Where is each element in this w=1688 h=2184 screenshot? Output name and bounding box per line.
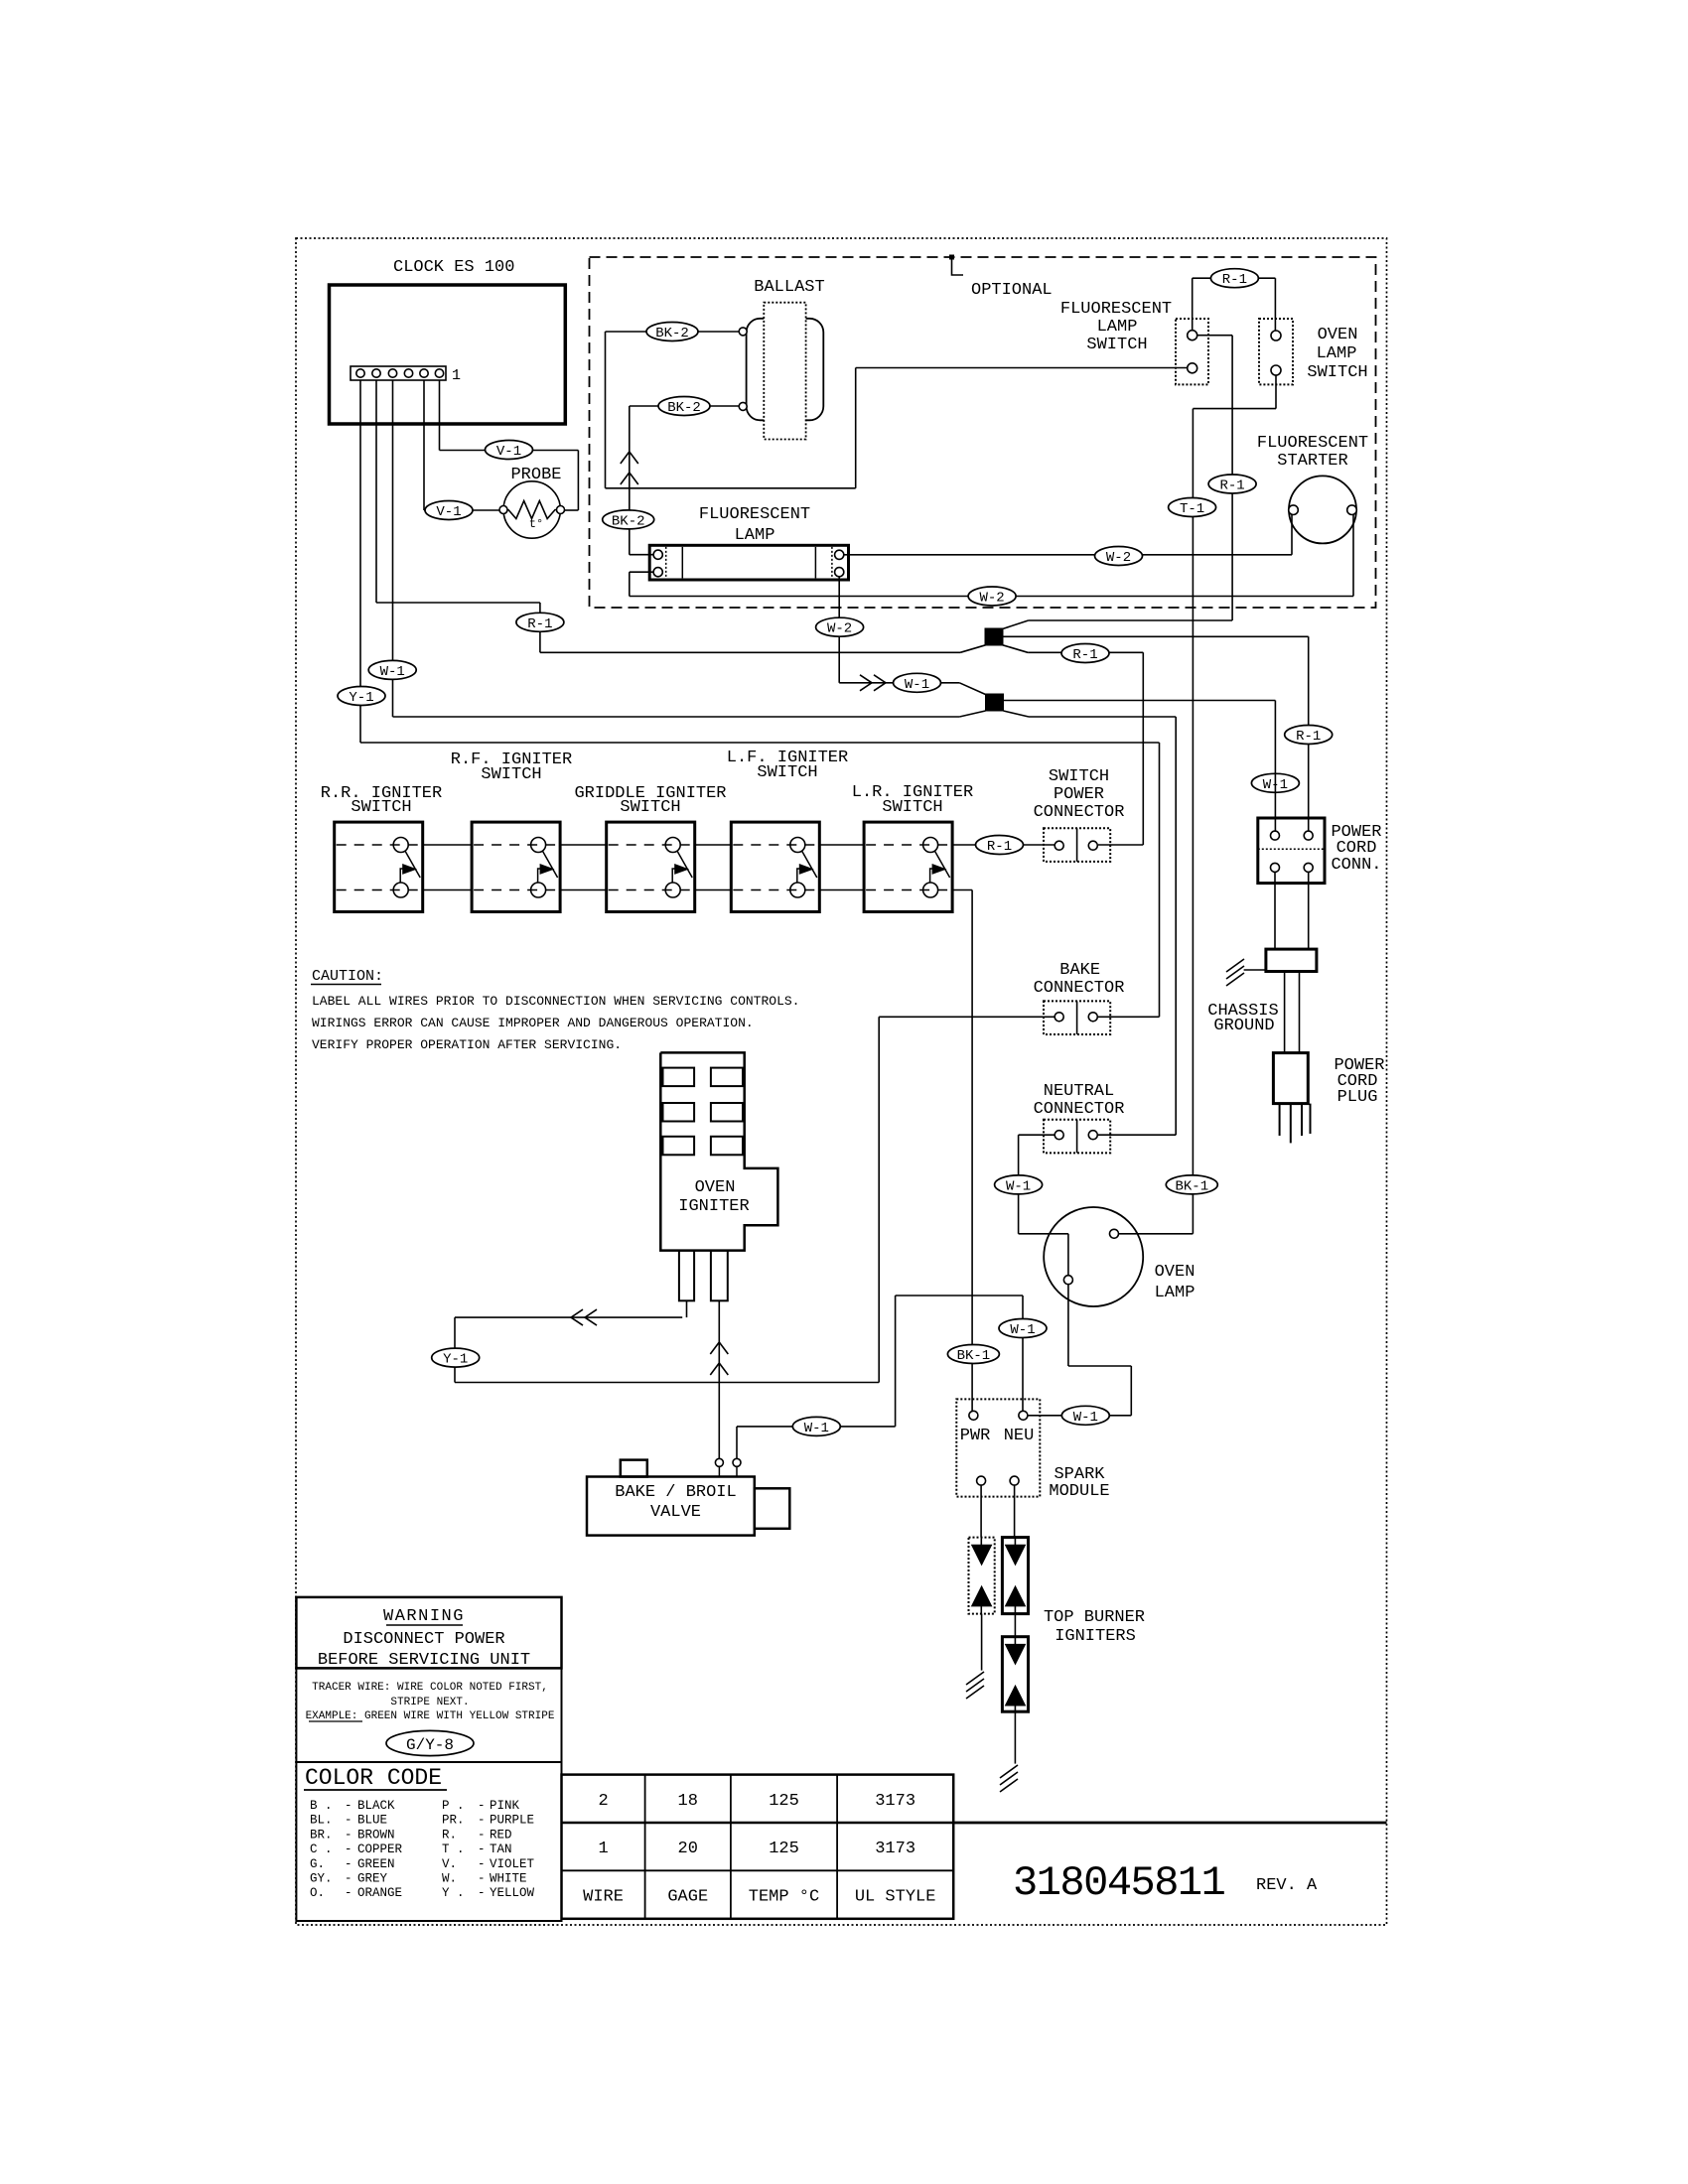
wire R-1 from fluorescent switch upper pin right: [1197, 335, 1232, 337]
wire W-1 down to power cord connector: [1274, 701, 1276, 832]
svg-text:PINK: PINK: [490, 1799, 520, 1813]
lamp terminal upper-left: [653, 550, 662, 559]
igniter B bottom stub: [1014, 1606, 1016, 1614]
svg-text:VIOLET: VIOLET: [490, 1857, 535, 1871]
wire label W-1: [1251, 773, 1299, 793]
top burner igniter B: [1002, 1538, 1028, 1614]
wire R-1 to switch power connector (label R-1): [1028, 651, 1143, 653]
S2 upper contact: [531, 838, 546, 853]
wire W-1 right: [896, 1295, 1023, 1297]
spark module box: [956, 1399, 1040, 1496]
svg-text:OVEN: OVEN: [1318, 326, 1358, 344]
wire V-1 horizontal top: [440, 450, 579, 452]
chassis ground symbol: [1226, 959, 1244, 986]
svg-text:125: 125: [769, 1840, 799, 1858]
wire W-1 to oven lamp: [1019, 1233, 1068, 1235]
chevron arrows on igniter-valve wire: [710, 1342, 728, 1375]
svg-text:FLUORESCENT: FLUORESCENT: [699, 505, 810, 524]
oven lamp switch upper pin: [1271, 331, 1281, 341]
oven igniter heater slot: [711, 1103, 743, 1122]
oven lamp terminal lower-left: [1063, 1276, 1072, 1285]
svg-text:20: 20: [678, 1840, 698, 1858]
svg-text:TRACER WIRE: WIRE COLOR NOTED: TRACER WIRE: WIRE COLOR NOTED FIRST,: [312, 1682, 548, 1694]
igniter A lower electrode: [972, 1586, 992, 1606]
oven igniter right lead: [711, 1251, 728, 1301]
svg-text:LAMP: LAMP: [735, 526, 775, 545]
S3 actuator arrow: [672, 865, 688, 883]
svg-text:W-2: W-2: [827, 621, 852, 637]
wire W-1 from J2 to power cord connector: [1004, 700, 1276, 702]
color code row GREY/WHITE: [310, 1872, 527, 1886]
wire W-1 to neutral connector: [1029, 716, 1176, 718]
svg-text:T .: T .: [442, 1843, 465, 1856]
svg-text:R-1: R-1: [1296, 729, 1321, 745]
wire Y-1 from clock pin1 (vertical): [359, 380, 361, 743]
power cord strain relief bar: [1266, 949, 1317, 971]
wire label W-1: [792, 1417, 840, 1436]
wire spark module to igniter B: [1014, 1485, 1016, 1538]
junction node J2 (W-1 splice): [986, 694, 1004, 711]
ballast core (transformer): [764, 303, 805, 440]
oven lamp circle: [1044, 1207, 1143, 1306]
ground below igniter A: [966, 1672, 984, 1699]
wire BK-2 down to fluorescent lamp (with chevrons): [629, 406, 631, 555]
oven igniter heater slot: [663, 1103, 695, 1122]
valve top tab: [621, 1460, 647, 1477]
wire BK-2 ballast pin2 left: [630, 405, 739, 407]
color code title underline: [304, 1789, 447, 1791]
wire Y-1 vertical: [878, 1017, 880, 1382]
igniter C bottom stub: [1014, 1706, 1016, 1711]
wire label W-2: [1095, 547, 1143, 567]
switch power connector divider: [1076, 828, 1078, 862]
lamp terminal upper-right: [835, 550, 844, 559]
oven lamp switch lower pin: [1271, 365, 1281, 375]
svg-text:REV. A: REV. A: [1256, 1876, 1318, 1895]
igniter B lower electrode: [1006, 1586, 1026, 1606]
power cord plug prongs: [1280, 1104, 1311, 1144]
svg-text:-: -: [345, 1799, 352, 1813]
wire BK-1 from S5 lower contact: [952, 889, 972, 891]
svg-text:B .: B .: [310, 1799, 333, 1813]
probe (oven temperature sensor) resistor symbol: [503, 481, 560, 538]
wire label T-1: [1169, 498, 1216, 518]
wire diagonal into junction J1: [1003, 620, 1029, 629]
svg-text:NEUTRAL: NEUTRAL: [1044, 1082, 1114, 1101]
example underline: [309, 1720, 362, 1722]
color code box: [296, 1762, 561, 1921]
probe left terminal: [499, 506, 507, 514]
power cord conn pin bottom-left: [1271, 863, 1280, 872]
neutral connector box: [1044, 1120, 1110, 1154]
wire R-1 fluorescent switch pin up: [1192, 278, 1194, 331]
svg-text:125: 125: [769, 1792, 799, 1811]
power cord conn pin bottom-right: [1304, 863, 1313, 872]
neutral connector divider: [1076, 1120, 1078, 1154]
S1 switch blade: [405, 852, 420, 879]
wire label W-1: [995, 1175, 1043, 1195]
S3 upper contact dashed rail: [609, 844, 693, 846]
svg-text:TOP BURNER: TOP BURNER: [1044, 1608, 1145, 1627]
wire label R-1: [976, 836, 1024, 856]
spark module output pin left: [977, 1476, 986, 1485]
color code row ORANGE/YELLOW: [310, 1886, 535, 1900]
svg-text:-: -: [478, 1799, 486, 1813]
wire Y-1 horizontal above valve: [455, 1382, 879, 1384]
svg-text:CONNECTOR: CONNECTOR: [1034, 803, 1125, 822]
S5 upper contact: [923, 838, 938, 853]
S1 upper contact dashed rail: [337, 844, 421, 846]
wire label BK-1: [947, 1345, 999, 1365]
svg-text:GROUND: GROUND: [1213, 1017, 1274, 1035]
wire Y-1 horizontal to bake connector: [360, 742, 1160, 744]
ballast terminal 1: [739, 328, 747, 336]
svg-text:WIRINGS ERROR CAN CAUSE IMPROP: WIRINGS ERROR CAN CAUSE IMPROPER AND DAN…: [312, 1016, 754, 1030]
svg-text:-: -: [478, 1886, 486, 1900]
wire R-1 long vertical: [1231, 336, 1233, 620]
svg-text:SWITCH: SWITCH: [1086, 336, 1147, 354]
svg-text:W-1: W-1: [804, 1421, 829, 1436]
valve terminal 1: [715, 1458, 723, 1466]
wire spark module to igniter A: [980, 1485, 982, 1538]
power cord conn pin top-left: [1271, 831, 1280, 840]
wire W-1 valve terminal 2 up: [736, 1427, 738, 1458]
svg-text:SWITCH: SWITCH: [882, 798, 942, 817]
wire W-2 lamp lower-right down: [838, 577, 840, 683]
S3 lower contact dashed rail: [609, 889, 693, 891]
wire upper rail S2-S3: [560, 844, 607, 846]
wire BK-2 ballast pin1 left: [606, 331, 740, 333]
wire R-1 down to oven lamp switch pin: [1274, 278, 1276, 331]
wire BK-2 up: [855, 368, 857, 488]
switch power connector box: [1044, 828, 1110, 862]
S5 upper contact dashed rail: [866, 844, 950, 846]
wire label R-1: [1061, 644, 1109, 664]
S2 upper contact dashed rail: [474, 844, 558, 846]
wire V-1 down: [577, 451, 579, 511]
svg-text:TAN: TAN: [490, 1843, 512, 1856]
svg-text:COPPER: COPPER: [357, 1843, 403, 1856]
wire R-1 down: [1142, 652, 1144, 845]
wire W-1 from clock pin3 (vertical): [392, 380, 394, 717]
svg-text:1: 1: [452, 367, 461, 384]
oven igniter heater slot: [663, 1068, 695, 1087]
wire W-2 up to starter left terminal: [1291, 515, 1293, 555]
lamp terminal lower-right: [835, 568, 844, 577]
svg-text:-: -: [478, 1872, 486, 1886]
wire V-1 from clock pin6 (vertical): [439, 380, 441, 451]
wire lower rail S2-S3: [560, 889, 607, 891]
S5 switch blade: [935, 852, 950, 879]
svg-text:GY.: GY.: [310, 1872, 333, 1886]
svg-text:BAKE / BROIL: BAKE / BROIL: [615, 1483, 736, 1502]
svg-text:-: -: [345, 1814, 352, 1828]
igniter B top stub: [1014, 1538, 1016, 1546]
S4 upper contact dashed rail: [733, 844, 817, 846]
svg-text:-: -: [345, 1828, 352, 1842]
svg-text:SWITCH: SWITCH: [351, 798, 411, 817]
wire upper rail S1-S2: [423, 844, 472, 846]
oven lamp switch box: [1259, 319, 1293, 384]
svg-text:IGNITERS: IGNITERS: [1055, 1627, 1136, 1646]
wire V-1 to probe right terminal: [565, 509, 579, 511]
svg-text:PWR: PWR: [960, 1427, 991, 1445]
lamp right end-cap divider dotted: [831, 547, 833, 579]
svg-text:SWITCH: SWITCH: [1049, 767, 1109, 786]
valve terminal 2: [733, 1458, 741, 1466]
wire label BK-2: [603, 510, 654, 530]
igniter C upper electrode: [1006, 1644, 1026, 1664]
wire diagonal into junction J2: [959, 683, 985, 695]
wire diagonal J2 lower-left: [959, 711, 985, 717]
wire label W-1: [368, 660, 416, 680]
tracer wire note box: [296, 1668, 561, 1762]
wire R-1 from J1 to power cord connector: [1003, 635, 1309, 637]
svg-text:YELLOW: YELLOW: [490, 1886, 535, 1900]
S5 lower contact: [923, 883, 938, 897]
svg-text:C .: C .: [310, 1843, 333, 1856]
wire igniter A to ground: [981, 1614, 983, 1671]
wire R-1 from clock pin2 (vertical): [375, 380, 377, 603]
wire lower rail S1-S2: [423, 889, 472, 891]
svg-text:IGNITER: IGNITER: [678, 1197, 749, 1216]
clock connector pin 6: [435, 369, 443, 377]
OPTIONAL leader line: [952, 259, 964, 275]
svg-text:VERIFY PROPER OPERATION AFTER: VERIFY PROPER OPERATION AFTER SERVICING.: [312, 1037, 622, 1052]
wire BK-2 right under ballast: [606, 487, 856, 489]
chevron arrows on Y-1 wire: [571, 1309, 597, 1325]
S5 lower contact dashed rail: [866, 889, 950, 891]
wire label V-1: [486, 441, 533, 461]
svg-text:P .: P .: [442, 1799, 465, 1813]
spark module output pin right: [1010, 1476, 1019, 1485]
clock connector pin 2: [372, 369, 380, 377]
svg-text:R-1: R-1: [1219, 478, 1244, 494]
svg-text:COLOR CODE: COLOR CODE: [305, 1765, 442, 1791]
wire Y-1 bake connector left pin to left: [879, 1016, 1055, 1018]
svg-text:R-1: R-1: [1222, 272, 1247, 288]
igniter switch S3 (GRIDDLE IGNITER): [607, 822, 695, 911]
wire Y-1 vertical down to bake connector: [1159, 743, 1161, 1017]
power cord cable left: [1284, 972, 1286, 1053]
fluorescent lamp switch box: [1176, 319, 1208, 384]
wire R-1 down through label: [539, 603, 541, 652]
svg-text:BK-1: BK-1: [1175, 1178, 1208, 1194]
power cord conn pin top-right: [1304, 831, 1313, 840]
svg-text:-: -: [478, 1843, 486, 1856]
igniter A bottom stub: [980, 1606, 982, 1614]
ballast terminal 2: [739, 402, 747, 410]
wire R-1 horizontal toward junction J1: [1029, 619, 1233, 621]
wire label W-2: [968, 587, 1016, 607]
oven lamp terminal upper-right: [1110, 1229, 1119, 1238]
ground below igniter C: [1000, 1765, 1018, 1792]
wire from igniter right lead to valve (with chevrons): [718, 1300, 720, 1458]
wire T-1 jog left: [1193, 408, 1276, 410]
svg-text:t°: t°: [529, 517, 543, 531]
fluorescent starter circle: [1289, 476, 1356, 543]
wire gauge table: [562, 1775, 954, 1919]
svg-text:Y-1: Y-1: [443, 1352, 468, 1368]
wire label BK-2: [646, 323, 698, 342]
OPTIONAL leader tick: [950, 255, 954, 259]
bake/broil valve body: [587, 1477, 755, 1536]
wire W-1 horizontal to junction J2: [393, 716, 960, 718]
svg-text:POWER: POWER: [1054, 785, 1104, 804]
wire label Y-1: [432, 1348, 480, 1368]
wire W-1 up: [895, 1296, 897, 1427]
igniter switch S2 (R.F. IGNITER): [472, 822, 560, 911]
igniter B upper electrode: [1006, 1545, 1026, 1565]
wire R-1 down to power cord connector: [1308, 636, 1310, 831]
oven igniter body: [660, 1052, 777, 1250]
wire T-1 / BK-1 long vertical to oven lamp: [1192, 409, 1194, 1234]
wire W-2 horizontal to starter right: [630, 596, 1353, 598]
svg-text:DISCONNECT POWER: DISCONNECT POWER: [343, 1630, 504, 1649]
svg-text:G.: G.: [310, 1857, 325, 1871]
svg-text:W-1: W-1: [905, 677, 929, 693]
lamp terminal lower-left: [653, 568, 662, 577]
svg-text:R.: R.: [442, 1828, 457, 1842]
svg-text:EXAMPLE: GREEN WIRE WITH YELLO: EXAMPLE: GREEN WIRE WITH YELLOW STRIPE: [306, 1710, 555, 1722]
junction node J1 (R-1 splice): [985, 628, 1003, 645]
svg-text:LAMP: LAMP: [1155, 1284, 1196, 1302]
svg-text:OVEN: OVEN: [1155, 1263, 1196, 1282]
svg-text:BK-2: BK-2: [612, 513, 645, 529]
svg-text:W-1: W-1: [380, 664, 405, 680]
wire BK-1 into oven lamp right terminal: [1119, 1233, 1194, 1235]
S4 lower contact: [790, 883, 805, 897]
power cord plug body: [1273, 1053, 1308, 1104]
wire R-1 horizontal to junction J1: [540, 651, 960, 653]
svg-text:BK-2: BK-2: [655, 326, 689, 341]
svg-text:CAUTION:: CAUTION:: [312, 968, 383, 985]
S1 actuator arrow: [400, 865, 416, 883]
svg-text:BK-1: BK-1: [957, 1348, 991, 1364]
wire label V-1: [425, 501, 473, 521]
lamp left end-cap divider: [681, 547, 683, 579]
ballast winding right: [778, 319, 823, 421]
svg-text:CONN.: CONN.: [1331, 856, 1381, 875]
lamp right end-cap divider: [814, 547, 816, 579]
wire BK-2 down: [605, 332, 607, 488]
svg-text:V.: V.: [442, 1857, 457, 1871]
wire label R-1: [1285, 726, 1333, 746]
igniter A upper electrode: [972, 1545, 992, 1565]
svg-text:BALLAST: BALLAST: [754, 278, 824, 297]
svg-text:BR.: BR.: [310, 1828, 333, 1842]
wire T-1 oven lamp switch lower pin down: [1275, 375, 1277, 409]
svg-text:LABEL ALL WIRES PRIOR TO DISCO: LABEL ALL WIRES PRIOR TO DISCONNECTION W…: [312, 994, 799, 1009]
svg-text:BAKE: BAKE: [1059, 961, 1100, 980]
svg-text:WIRE: WIRE: [583, 1888, 624, 1907]
wire BK-1 down to spark module PWR: [971, 890, 973, 1412]
svg-text:1: 1: [598, 1840, 608, 1858]
switch power connector left pin: [1055, 841, 1063, 850]
svg-text:W-2: W-2: [979, 591, 1004, 607]
wire Y-1 to oven igniter left lead (with chevrons): [455, 1316, 682, 1318]
svg-text:GREEN: GREEN: [357, 1857, 395, 1871]
probe resistive element zigzag: [503, 501, 560, 519]
wire V-1 from clock pin5 (vertical): [423, 380, 425, 510]
svg-text:W.: W.: [442, 1872, 457, 1886]
S2 lower contact dashed rail: [474, 889, 558, 891]
svg-text:-: -: [345, 1857, 352, 1871]
top burner igniter C: [1002, 1637, 1028, 1712]
svg-text:W-1: W-1: [1073, 1410, 1098, 1426]
svg-text:V-1: V-1: [436, 504, 461, 520]
chevron arrows on W-1 wire: [860, 675, 886, 691]
lamp left end-cap divider dotted: [665, 547, 667, 579]
wire W-1 long vertical: [1175, 717, 1177, 1135]
valve terminal 1 stub: [718, 1466, 720, 1476]
neutral connector left pin: [1055, 1131, 1063, 1140]
igniter switch S1 (R.R. IGNITER): [335, 822, 423, 911]
S1 lower contact dashed rail: [337, 889, 421, 891]
wire W-1 down (label W-1): [1018, 1135, 1020, 1234]
oven igniter heater slot: [711, 1068, 743, 1087]
S2 actuator arrow: [538, 865, 554, 883]
svg-text:GREY: GREY: [357, 1872, 388, 1886]
tracer example label G/Y-8: [386, 1730, 474, 1755]
wire lower rail S4-S5: [819, 889, 864, 891]
clock connector strip J1: [351, 366, 446, 380]
svg-text:PROBE: PROBE: [510, 466, 561, 484]
wire W-1 into neutral connector right pin: [1098, 1134, 1176, 1136]
neutral connector right pin: [1088, 1131, 1097, 1140]
S2 lower contact: [531, 883, 546, 897]
svg-text:18: 18: [678, 1792, 698, 1811]
svg-text:-: -: [345, 1843, 352, 1856]
wire BK-2 to fluorescent lamp switch lower pin: [856, 367, 1188, 369]
svg-text:LAMP: LAMP: [1097, 318, 1138, 337]
power cord connector box: [1258, 818, 1325, 884]
svg-text:STRIPE NEXT.: STRIPE NEXT.: [390, 1697, 469, 1708]
svg-text:PLUG: PLUG: [1337, 1088, 1378, 1107]
igniter switch S4 (L.F. IGNITER): [731, 822, 819, 911]
igniter A top stub: [980, 1538, 982, 1546]
svg-text:LAMP: LAMP: [1317, 344, 1357, 363]
wire W-2 down: [629, 572, 631, 596]
svg-text:BLUE: BLUE: [357, 1814, 387, 1828]
wire Y-1 up (label Y-1): [454, 1317, 456, 1382]
svg-text:3173: 3173: [875, 1792, 915, 1811]
svg-text:2: 2: [598, 1792, 608, 1811]
oven igniter heater slot: [711, 1137, 743, 1156]
svg-text:PURPLE: PURPLE: [490, 1814, 534, 1828]
S4 switch blade: [802, 852, 817, 879]
starter right terminal: [1347, 505, 1357, 515]
wire R-1 from S5 to switch power connector (label R-1): [952, 844, 1055, 846]
svg-text:UL STYLE: UL STYLE: [855, 1888, 936, 1907]
S1 lower contact: [393, 883, 408, 897]
color code row BLUE/PURPLE: [310, 1814, 534, 1828]
svg-text:Y-1: Y-1: [349, 690, 373, 706]
svg-text:FLUORESCENT: FLUORESCENT: [1257, 434, 1368, 453]
svg-text:GAGE: GAGE: [667, 1888, 708, 1907]
wire W-2 lamp upper-right to starter left: [844, 554, 1292, 556]
S3 upper contact: [665, 838, 680, 853]
wire diagonal J2 lower-right: [1004, 711, 1030, 717]
svg-text:R-1: R-1: [1072, 647, 1097, 663]
wire label BK-1: [1166, 1175, 1217, 1195]
S3 switch blade: [677, 852, 692, 879]
svg-text:OVEN: OVEN: [695, 1178, 736, 1197]
svg-text:-: -: [478, 1814, 486, 1828]
color code row GREEN/VIOLET: [310, 1857, 535, 1871]
wire W-1 horizontal to junction J2 (with chevrons): [839, 682, 959, 684]
wire W-1 into spark module NEU (label W-1): [1028, 1415, 1131, 1417]
